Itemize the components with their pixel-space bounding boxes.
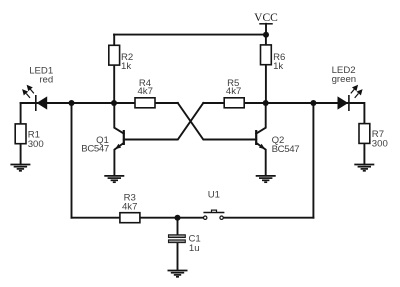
- capacitor C1 plate top: [169, 235, 186, 238]
- wire VCC stub: [265, 24, 267, 35]
- svg-text:green: green: [332, 74, 357, 85]
- svg-text:4k7: 4k7: [122, 201, 137, 212]
- wire R7 bottom to ground: [363, 143, 365, 164]
- wire LED1 left drop to R1: [20, 103, 22, 124]
- svg-text:BC547: BC547: [272, 144, 300, 155]
- wire R3 to button: [140, 217, 203, 219]
- wire LED2 to R7 corner: [349, 103, 365, 124]
- svg-text:4k7: 4k7: [226, 86, 241, 97]
- wire R5 right to node: [244, 102, 266, 104]
- wire Q2 emitter to ground: [256, 143, 266, 176]
- node B junction LED2: [310, 100, 316, 106]
- resistor R5: [224, 98, 244, 108]
- transistor Q2 emitter arrow: [259, 144, 265, 149]
- wire node A drop to bottom rail: [71, 103, 73, 218]
- wire R6 top: [265, 35, 267, 46]
- svg-text:300: 300: [372, 139, 388, 150]
- resistor R2: [109, 45, 120, 65]
- wire R2 bottom to node: [113, 65, 115, 103]
- svg-text:1u: 1u: [189, 243, 200, 254]
- wire Q2 collector: [256, 103, 266, 134]
- wire Q1 emitter to ground: [114, 143, 123, 176]
- wire R6 bottom to node: [265, 65, 267, 103]
- transistor Q2 base bar: [255, 130, 257, 145]
- wire node to R4: [114, 102, 135, 104]
- ground under R1: [10, 165, 30, 171]
- LED1 cathode bar: [35, 95, 37, 111]
- resistor R3: [120, 213, 140, 223]
- LED1 arrow 2: [23, 90, 30, 98]
- wire Q1 collector: [114, 103, 124, 134]
- svg-text:300: 300: [28, 139, 44, 150]
- wire R2 top: [113, 35, 115, 46]
- ground under Q1: [104, 176, 124, 182]
- svg-text:1k: 1k: [121, 61, 131, 72]
- LED2 arrow 1: [351, 86, 357, 94]
- transistor Q1 base bar: [123, 130, 125, 145]
- resistor R6: [261, 45, 272, 65]
- VCC symbol bar: [260, 23, 272, 25]
- LED1 arrow 1: [28, 86, 34, 94]
- svg-text:1k: 1k: [273, 61, 283, 72]
- wire C1 bottom to ground: [177, 242, 179, 270]
- wire R1 bottom to ground: [20, 144, 22, 165]
- wire C1 top: [177, 218, 179, 235]
- node A junction LED1: [69, 100, 75, 106]
- node Q1 collector junction: [111, 100, 117, 106]
- pushbutton U1 contact right: [220, 216, 223, 219]
- svg-text:4k7: 4k7: [137, 86, 152, 97]
- wire cross diagonal R4 to Q2 base: [178, 103, 256, 140]
- resistor R7: [359, 124, 370, 144]
- svg-text:red: red: [39, 75, 53, 86]
- node Q2 collector junction: [263, 100, 269, 106]
- wire cross diagonal R5 to Q1 base: [124, 103, 204, 140]
- LED2 diode triangle: [338, 96, 349, 109]
- transistor Q1 emitter arrow: [115, 144, 121, 149]
- wire LED1 row: [21, 102, 115, 104]
- svg-text:VCC: VCC: [254, 12, 278, 24]
- svg-text:BC547: BC547: [81, 144, 109, 155]
- wire top rail VCC: [114, 34, 266, 36]
- node VCC junction: [263, 32, 269, 38]
- ground under R7: [354, 165, 374, 171]
- pushbutton U1 actuator: [212, 210, 217, 212]
- pushbutton U1 bar: [203, 212, 224, 214]
- LED2 arrow 2: [355, 90, 362, 98]
- LED2 cathode bar: [348, 95, 350, 111]
- LED1 diode triangle: [37, 96, 48, 109]
- ground under C1: [168, 271, 188, 277]
- resistor R4: [135, 98, 155, 108]
- svg-text:U1: U1: [208, 190, 220, 201]
- wire R4 to corner: [155, 102, 178, 104]
- resistor R1: [15, 124, 26, 144]
- wire node B drop to bottom rail: [312, 103, 314, 218]
- wire button to right corner: [224, 217, 313, 219]
- pushbutton U1 contact left: [204, 216, 207, 219]
- ground under Q2: [256, 176, 276, 182]
- wire LED2 row: [266, 102, 349, 104]
- node C1 junction: [175, 215, 181, 221]
- wire R5 corner: [203, 102, 224, 104]
- wire bottom rail left: [72, 217, 120, 219]
- capacitor C1 plate bottom: [169, 240, 186, 243]
